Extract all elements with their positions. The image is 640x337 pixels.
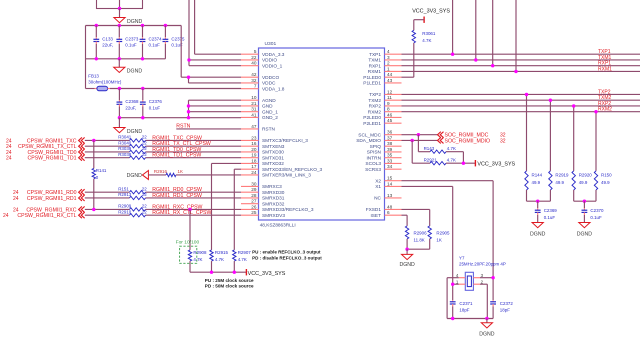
svg-text:9: 9 xyxy=(387,101,390,106)
svg-text:27: 27 xyxy=(251,199,257,204)
wire TXM1 xyxy=(402,0,640,62)
svg-text:PU : 25M clock source: PU : 25M clock source xyxy=(205,278,254,283)
svg-text:GND_1: GND_1 xyxy=(262,109,278,115)
svg-text:18pF: 18pF xyxy=(500,308,510,313)
ground DGND (R2906) xyxy=(399,254,415,268)
capacitor C2375 xyxy=(163,26,186,59)
capacitor C2374 xyxy=(140,26,163,59)
wire SDA_MDIO xyxy=(402,139,438,142)
off-page connector CPSW_RGMII1_RD0 xyxy=(13,189,85,196)
svg-text:P1LED1: P1LED1 xyxy=(363,81,381,87)
ferrite bead FB13 xyxy=(86,74,242,91)
net label TXP2 xyxy=(598,89,611,95)
off-page connector SOC_RGMII_MDIO xyxy=(438,137,506,144)
wire crystal ground rail xyxy=(447,317,493,323)
svg-text:SMTXC3/REFCLKI_3: SMTXC3/REFCLKI_3 xyxy=(262,138,308,144)
svg-text:VCC_3V3_SYS: VCC_3V3_SYS xyxy=(248,271,286,277)
wire RGMII1_TXC_CPSW xyxy=(85,139,241,141)
svg-text:TXM2: TXM2 xyxy=(368,98,381,104)
svg-text:R2909: R2909 xyxy=(118,204,132,209)
svg-text:5: 5 xyxy=(254,49,257,54)
svg-text:TXP2: TXP2 xyxy=(369,92,381,98)
wire pull-up rail xyxy=(190,271,246,274)
svg-text:33: 33 xyxy=(387,158,393,163)
svg-text:R3041: R3041 xyxy=(118,135,132,140)
net label RSTN xyxy=(176,123,190,129)
svg-text:R2919: R2919 xyxy=(555,172,569,177)
svg-text:C133: C133 xyxy=(102,36,113,41)
svg-text:39: 39 xyxy=(387,147,393,152)
svg-text:32: 32 xyxy=(251,78,257,83)
svg-text:22: 22 xyxy=(251,55,257,60)
resistor R141 0 xyxy=(92,140,107,209)
resistor R2907 4.7K xyxy=(233,250,252,272)
svg-text:GND: GND xyxy=(262,104,273,110)
power VCC_3V3_SYS (MDC/MDIO pull-ups) xyxy=(475,160,515,167)
wire ISET xyxy=(402,215,408,226)
svg-text:2: 2 xyxy=(387,61,390,66)
net label RGMII1_TXC_CPSW xyxy=(152,135,202,141)
wire to ground xyxy=(118,118,120,128)
net label RXM1 xyxy=(598,66,612,72)
wire crystal pin4 to ground xyxy=(447,278,459,319)
net label RGMII1_RD0_CPSW xyxy=(152,187,202,193)
svg-text:PD : disable REFCLKO_3 output: PD : disable REFCLKO_3 output xyxy=(252,255,322,260)
capacitor C2368 xyxy=(117,89,140,118)
ground DGND (C2368) xyxy=(114,128,143,135)
svg-text:18: 18 xyxy=(251,158,257,163)
power VCC_3V3_SYS (straps) xyxy=(246,269,285,277)
svg-text:SCRS3: SCRS3 xyxy=(365,167,381,173)
svg-text:1K: 1K xyxy=(178,169,183,174)
svg-text:0.1uF: 0.1uF xyxy=(149,106,161,111)
wire P1LED0 xyxy=(402,76,414,78)
off-page connector CPSW_RGMII1_RD1 xyxy=(13,195,85,202)
svg-text:VDDA_1.8: VDDA_1.8 xyxy=(262,86,285,92)
resistor R2910 22 xyxy=(118,209,147,217)
svg-text:RSTN: RSTN xyxy=(262,127,276,133)
net label TXM2 xyxy=(598,95,612,101)
wire REFCLKO strap xyxy=(189,209,191,249)
svg-text:RXP1: RXP1 xyxy=(369,63,382,69)
svg-text:35: 35 xyxy=(387,153,393,158)
svg-text:46: 46 xyxy=(387,112,393,117)
svg-text:RGMII1_RD1_CPSW: RGMII1_RD1_CPSW xyxy=(152,193,202,199)
off-page connector SOC_RGMII_MDC xyxy=(438,132,506,139)
svg-text:30: 30 xyxy=(251,181,257,186)
svg-text:49.9: 49.9 xyxy=(532,180,541,185)
svg-text:26: 26 xyxy=(251,204,257,209)
svg-text:0.1uF: 0.1uF xyxy=(125,43,137,48)
svg-text:TXP1: TXP1 xyxy=(369,52,381,58)
wire RGMII1_RXC_CPSW xyxy=(85,208,241,210)
svg-text:SMTXER3/MII_LINK_3: SMTXER3/MII_LINK_3 xyxy=(262,173,311,179)
svg-text:1K: 1K xyxy=(436,237,441,242)
svg-text:P2LED0: P2LED0 xyxy=(363,115,381,121)
svg-text:SMTXD32: SMTXD32 xyxy=(262,161,284,167)
svg-text:0.1uF: 0.1uF xyxy=(590,215,602,220)
wire RSTN xyxy=(176,128,241,130)
net label RXP1 xyxy=(598,61,611,67)
svg-text:AGND: AGND xyxy=(262,98,276,104)
wire VDDCO/VDDC feed xyxy=(181,26,241,83)
svg-text:22: 22 xyxy=(142,152,147,157)
svg-text:X1: X1 xyxy=(375,184,381,190)
resistor R2906 11.8K xyxy=(405,226,427,249)
svg-text:22: 22 xyxy=(142,146,147,151)
note PU/PD REFCLKO xyxy=(252,250,322,261)
svg-text:6: 6 xyxy=(387,210,390,215)
svg-text:RGMII1_TD1_CPSW: RGMII1_TD1_CPSW xyxy=(152,153,201,159)
resistor R2920 49.9 xyxy=(572,171,592,190)
svg-text:C2368: C2368 xyxy=(125,99,139,104)
svg-text:43: 43 xyxy=(387,78,393,83)
svg-text:30ohm(100MHz): 30ohm(100MHz) xyxy=(88,80,122,85)
svg-text:20: 20 xyxy=(251,147,257,152)
svg-text:X2: X2 xyxy=(375,178,381,184)
wire RGMII1_TX_CTL_CPSW xyxy=(85,145,241,147)
svg-text:22: 22 xyxy=(142,135,147,140)
svg-text:SPIQ: SPIQ xyxy=(370,144,382,150)
svg-text:U301: U301 xyxy=(265,41,277,47)
svg-text:CPSW_RGMII1_RD1: CPSW_RGMII1_RD1 xyxy=(27,196,77,202)
power VCC_3V3_SYS (R3061) xyxy=(412,8,450,23)
svg-text:NC: NC xyxy=(374,196,381,202)
resistor R2919 49.9 xyxy=(549,171,569,190)
svg-text:P1LED0: P1LED0 xyxy=(363,75,381,81)
wire termination pair 2 xyxy=(574,190,596,203)
svg-text:R3039: R3039 xyxy=(118,146,132,151)
resistor R143 4.7K xyxy=(418,135,463,164)
wire SMTXD32 strap xyxy=(212,163,242,249)
svg-text:11: 11 xyxy=(387,95,392,100)
resistor R3040 22 xyxy=(118,140,147,148)
svg-text:R2921: R2921 xyxy=(424,158,438,163)
wire SMTXD33 strap xyxy=(234,169,241,250)
resistor R2909 22 xyxy=(118,204,147,212)
svg-text:SPISN: SPISN xyxy=(367,150,382,156)
svg-text:4.7K: 4.7K xyxy=(447,158,456,163)
svg-text:42: 42 xyxy=(251,72,257,77)
crystal Y7 25MHz xyxy=(456,256,506,291)
wire RGMII1_RX_CTL_CPSW xyxy=(85,214,241,216)
svg-text:4.7K: 4.7K xyxy=(193,257,202,262)
svg-text:49.9: 49.9 xyxy=(555,180,564,185)
svg-text:C2371: C2371 xyxy=(459,301,473,306)
capacitor C2370 0.1uF xyxy=(582,201,605,222)
resistor R3038 22 xyxy=(118,152,147,160)
svg-text:22uF,: 22uF, xyxy=(125,106,136,111)
net label RGMII1_TX_CTL_CPSW xyxy=(152,141,211,147)
svg-text:SMTXD33/EN_REFCLKO_3: SMTXD33/EN_REFCLKO_3 xyxy=(262,167,323,173)
svg-text:3: 3 xyxy=(387,55,390,60)
resistor R3039 22 xyxy=(118,146,147,154)
svg-text:4.7K: 4.7K xyxy=(422,38,431,43)
wire RGMII1_TD0_CPSW xyxy=(85,151,241,153)
svg-text:7: 7 xyxy=(254,84,257,89)
svg-text:24: 24 xyxy=(13,196,19,202)
svg-text:SCOL3: SCOL3 xyxy=(365,161,381,167)
svg-text:45: 45 xyxy=(387,118,393,123)
svg-text:C2372: C2372 xyxy=(500,301,514,306)
wire TXM2 xyxy=(402,99,640,171)
svg-text:DGND: DGND xyxy=(577,232,593,238)
svg-text:29: 29 xyxy=(251,187,257,192)
svg-text:25: 25 xyxy=(251,210,257,215)
svg-text:40: 40 xyxy=(251,61,257,66)
svg-text:18pF: 18pF xyxy=(459,308,469,313)
svg-text:CPSW_RGMII1_TD1: CPSW_RGMII1_TD1 xyxy=(27,156,76,162)
svg-text:DGND: DGND xyxy=(399,262,415,268)
svg-text:SMRXC3: SMRXC3 xyxy=(262,184,282,190)
resistor R2916 1K xyxy=(148,169,241,177)
off-page connector CPSW_RGMII1_RXC xyxy=(13,206,85,213)
net label RGMII1_TD0_CPSW xyxy=(152,147,201,153)
svg-text:15: 15 xyxy=(387,176,393,181)
svg-text:SMTXD31: SMTXD31 xyxy=(262,155,284,161)
svg-text:R2913: R2913 xyxy=(118,192,132,197)
wire GND rail xyxy=(118,116,241,119)
svg-text:22: 22 xyxy=(142,186,147,191)
capacitor C133 xyxy=(93,26,113,59)
svg-text:RXM1: RXM1 xyxy=(368,69,382,75)
svg-text:4.7K: 4.7K xyxy=(447,146,456,151)
svg-text:SMRXD30: SMRXD30 xyxy=(262,190,285,196)
svg-text:22uF,: 22uF, xyxy=(102,43,113,48)
svg-text:R151: R151 xyxy=(118,186,129,191)
ground DGND (top) xyxy=(114,18,143,25)
resistor R2913 22 xyxy=(118,192,147,200)
ground DGND (cap bank) xyxy=(114,67,143,74)
svg-text:R2907: R2907 xyxy=(238,250,252,255)
wire crystal pin2 to ground xyxy=(480,284,487,318)
wire FXSD1 xyxy=(402,209,430,225)
svg-text:GND_2: GND_2 xyxy=(262,115,278,121)
svg-text:13: 13 xyxy=(387,193,393,198)
svg-text:49.9: 49.9 xyxy=(579,180,588,185)
svg-text:R2910: R2910 xyxy=(118,209,132,214)
svg-text:C2370: C2370 xyxy=(590,208,604,213)
svg-text:DGND: DGND xyxy=(127,69,143,75)
net label TXM1 xyxy=(598,55,612,61)
svg-text:47: 47 xyxy=(251,124,257,129)
svg-text:R2908: R2908 xyxy=(193,250,207,255)
svg-text:DGND: DGND xyxy=(127,19,143,25)
wire RXM2 xyxy=(402,110,640,171)
svg-text:21: 21 xyxy=(251,101,257,106)
svg-text:PU : enable REFCLKO_3 output: PU : enable REFCLKO_3 output xyxy=(252,250,321,255)
svg-text:FXSD1: FXSD1 xyxy=(366,207,382,213)
svg-text:SMRXD31: SMRXD31 xyxy=(262,196,285,202)
svg-text:36: 36 xyxy=(387,130,393,135)
svg-text:48: 48 xyxy=(387,204,393,209)
svg-text:R3038: R3038 xyxy=(118,152,132,157)
svg-text:R2905: R2905 xyxy=(436,230,450,235)
wire RXP2 xyxy=(402,104,640,171)
svg-text:For 10/100: For 10/100 xyxy=(176,240,200,246)
svg-text:25MHz.20PF.20ppm 4P: 25MHz.20PF.20ppm 4P xyxy=(459,262,506,267)
svg-text:SOC_RGMII_MDIO: SOC_RGMII_MDIO xyxy=(445,138,491,144)
capacitor C2376 xyxy=(140,89,163,118)
svg-text:DGND: DGND xyxy=(479,332,495,337)
wire RXM1 xyxy=(402,0,640,73)
node junctions on top rail xyxy=(95,24,167,27)
svg-text:12: 12 xyxy=(387,89,393,94)
svg-text:10: 10 xyxy=(251,95,257,100)
svg-text:R143: R143 xyxy=(424,146,435,151)
svg-text:48,KSZ8863RLLI: 48,KSZ8863RLLI xyxy=(260,222,296,227)
svg-text:SMTXEN3: SMTXEN3 xyxy=(262,144,285,150)
wire VDDA_3.3 feeder xyxy=(195,0,241,54)
svg-text:ISET: ISET xyxy=(370,213,381,219)
ground DGND (R2916) xyxy=(127,170,149,179)
svg-text:24: 24 xyxy=(3,213,9,219)
resistor R2908 4.7K xyxy=(188,250,207,272)
node junctions RXC xyxy=(92,208,192,211)
svg-text:R144: R144 xyxy=(532,172,543,177)
svg-text:VCC_3V3_SYS: VCC_3V3_SYS xyxy=(412,8,450,14)
svg-text:CPSW_RGMII1_RX_CTL: CPSW_RGMII1_RX_CTL xyxy=(17,213,76,219)
wire ISET/FXSD1 ground rail xyxy=(405,248,429,255)
wire to ground xyxy=(118,59,120,68)
svg-text:28: 28 xyxy=(251,193,257,198)
svg-text:RXM2: RXM2 xyxy=(598,107,612,113)
IC U301 KSZ8863RLLI xyxy=(241,41,402,228)
svg-text:RGMII1_RX_CTL_CPSW: RGMII1_RX_CTL_CPSW xyxy=(152,210,211,216)
svg-text:38: 38 xyxy=(387,141,393,146)
svg-text:R150: R150 xyxy=(601,172,612,177)
resistor R2905 1K xyxy=(428,226,450,249)
wire RGMII1_RD0_CPSW xyxy=(85,191,241,193)
svg-text:PD : 50M clock source: PD : 50M clock source xyxy=(205,284,254,289)
svg-text:17: 17 xyxy=(251,164,257,169)
svg-text:37: 37 xyxy=(387,135,393,140)
wire crystal pin1 to X1 xyxy=(451,283,459,286)
svg-text:32: 32 xyxy=(500,138,506,144)
wire RGMII1_RD1_CPSW xyxy=(85,197,241,199)
svg-text:RXM2: RXM2 xyxy=(368,109,382,115)
For 10/100 annotation xyxy=(176,240,200,264)
resistor R144 49.9 xyxy=(525,171,543,190)
svg-text:41: 41 xyxy=(251,112,257,117)
net label RXP2 xyxy=(598,101,611,107)
svg-text:SDA_MDIO: SDA_MDIO xyxy=(356,138,381,144)
net label RGMII1_RXC_CPSW xyxy=(152,204,202,210)
svg-text:16: 16 xyxy=(251,141,257,146)
svg-text:R2915: R2915 xyxy=(215,250,229,255)
wire termination pair 1 xyxy=(527,190,551,203)
wire TXP1 xyxy=(402,0,640,56)
svg-text:23: 23 xyxy=(251,135,257,140)
svg-text:22: 22 xyxy=(142,209,147,214)
svg-text:44: 44 xyxy=(387,72,393,77)
wire RXP1 xyxy=(402,0,640,67)
svg-text:C2375: C2375 xyxy=(171,36,185,41)
svg-text:19: 19 xyxy=(251,153,257,158)
wire AGND/GND bus xyxy=(187,100,241,119)
svg-text:C2369: C2369 xyxy=(544,208,558,213)
wire xyxy=(119,9,121,18)
wire rail bottom of cap bank xyxy=(86,57,166,60)
net label RGMII1_RX_CTL_CPSW xyxy=(152,210,211,216)
off-page connector CPSW_RGMII1_TD1 xyxy=(6,155,85,162)
svg-text:0.1uF: 0.1uF xyxy=(544,215,556,220)
off-page connector CPSW_RGMII1_TXC xyxy=(6,137,85,144)
svg-text:4.7K: 4.7K xyxy=(238,257,247,262)
svg-text:4.7K: 4.7K xyxy=(215,257,224,262)
resistor R3061 4.7K xyxy=(412,20,436,77)
node junction TXC/R141 xyxy=(92,139,95,142)
connector J? (partial, top edge) xyxy=(97,0,143,10)
svg-text:24: 24 xyxy=(251,170,257,175)
resistor R151 22 xyxy=(118,186,147,194)
svg-text:SMTXD30: SMTXD30 xyxy=(262,150,284,156)
svg-text:8: 8 xyxy=(387,107,390,112)
off-page connector CPSW_RGMII1_TD0 xyxy=(6,149,85,156)
svg-text:11.8K: 11.8K xyxy=(414,237,425,242)
resistor R150 49.9 xyxy=(594,171,612,190)
svg-text:R2906: R2906 xyxy=(414,230,428,235)
svg-text:C2374: C2374 xyxy=(149,36,163,41)
svg-text:VDDA_3.3: VDDA_3.3 xyxy=(262,52,285,58)
ground DGND (crystal) xyxy=(479,323,495,337)
svg-text:0.1uF: 0.1uF xyxy=(149,43,161,48)
wire crystal pin3 to X2 xyxy=(480,276,495,279)
svg-text:RXM1: RXM1 xyxy=(598,66,612,72)
svg-text:R3061: R3061 xyxy=(422,31,436,36)
svg-text:P2LED1: P2LED1 xyxy=(363,121,381,127)
svg-text:C2373: C2373 xyxy=(125,36,139,41)
svg-text:4: 4 xyxy=(387,49,390,54)
svg-text:49.9: 49.9 xyxy=(601,180,610,185)
ground DGND (C2370) xyxy=(577,223,593,238)
capacitor C2369 0.1uF xyxy=(535,201,558,222)
svg-text:1: 1 xyxy=(387,66,390,71)
svg-text:VCC_3V3_SYS: VCC_3V3_SYS xyxy=(477,161,515,167)
svg-text:24: 24 xyxy=(6,156,12,162)
svg-text:22: 22 xyxy=(142,192,147,197)
svg-text:VDDCO: VDDCO xyxy=(262,75,279,81)
svg-text:22: 22 xyxy=(142,204,147,209)
svg-text:VDDC: VDDC xyxy=(262,81,276,87)
svg-text:SMRXD33/REFCLKO_3: SMRXD33/REFCLKO_3 xyxy=(262,207,314,213)
svg-text:RXP2: RXP2 xyxy=(369,104,382,110)
svg-text:Y7: Y7 xyxy=(459,256,465,261)
wire VDD rail top xyxy=(86,26,182,89)
svg-text:31: 31 xyxy=(251,107,257,112)
net label RXM2 xyxy=(598,107,612,113)
resistor R2915 4.7K xyxy=(210,250,229,272)
capacitor C2372 18pF xyxy=(490,300,513,318)
svg-text:DGND: DGND xyxy=(530,232,546,238)
wire VDDIO feeder xyxy=(187,0,241,66)
wire TXP2 xyxy=(402,93,640,171)
svg-text:22: 22 xyxy=(142,140,147,145)
wire SCL_MDC xyxy=(402,133,438,136)
svg-text:VDDIO_1: VDDIO_1 xyxy=(262,63,283,69)
svg-text:VDDIO: VDDIO xyxy=(262,58,277,64)
note PU/PD clock source xyxy=(205,278,254,289)
net label RGMII1_RD1_CPSW xyxy=(152,193,202,199)
svg-text:FB13: FB13 xyxy=(88,74,99,79)
wire X2 xyxy=(402,181,494,301)
svg-text:14: 14 xyxy=(387,181,393,186)
svg-text:TXM1: TXM1 xyxy=(368,58,381,64)
svg-text:R2916: R2916 xyxy=(154,169,168,174)
ground DGND (C2369) xyxy=(530,223,546,238)
off-page connector CPSW_RGMII1_RX_CTL xyxy=(3,212,85,219)
svg-text:SMRXD32: SMRXD32 xyxy=(262,201,285,207)
